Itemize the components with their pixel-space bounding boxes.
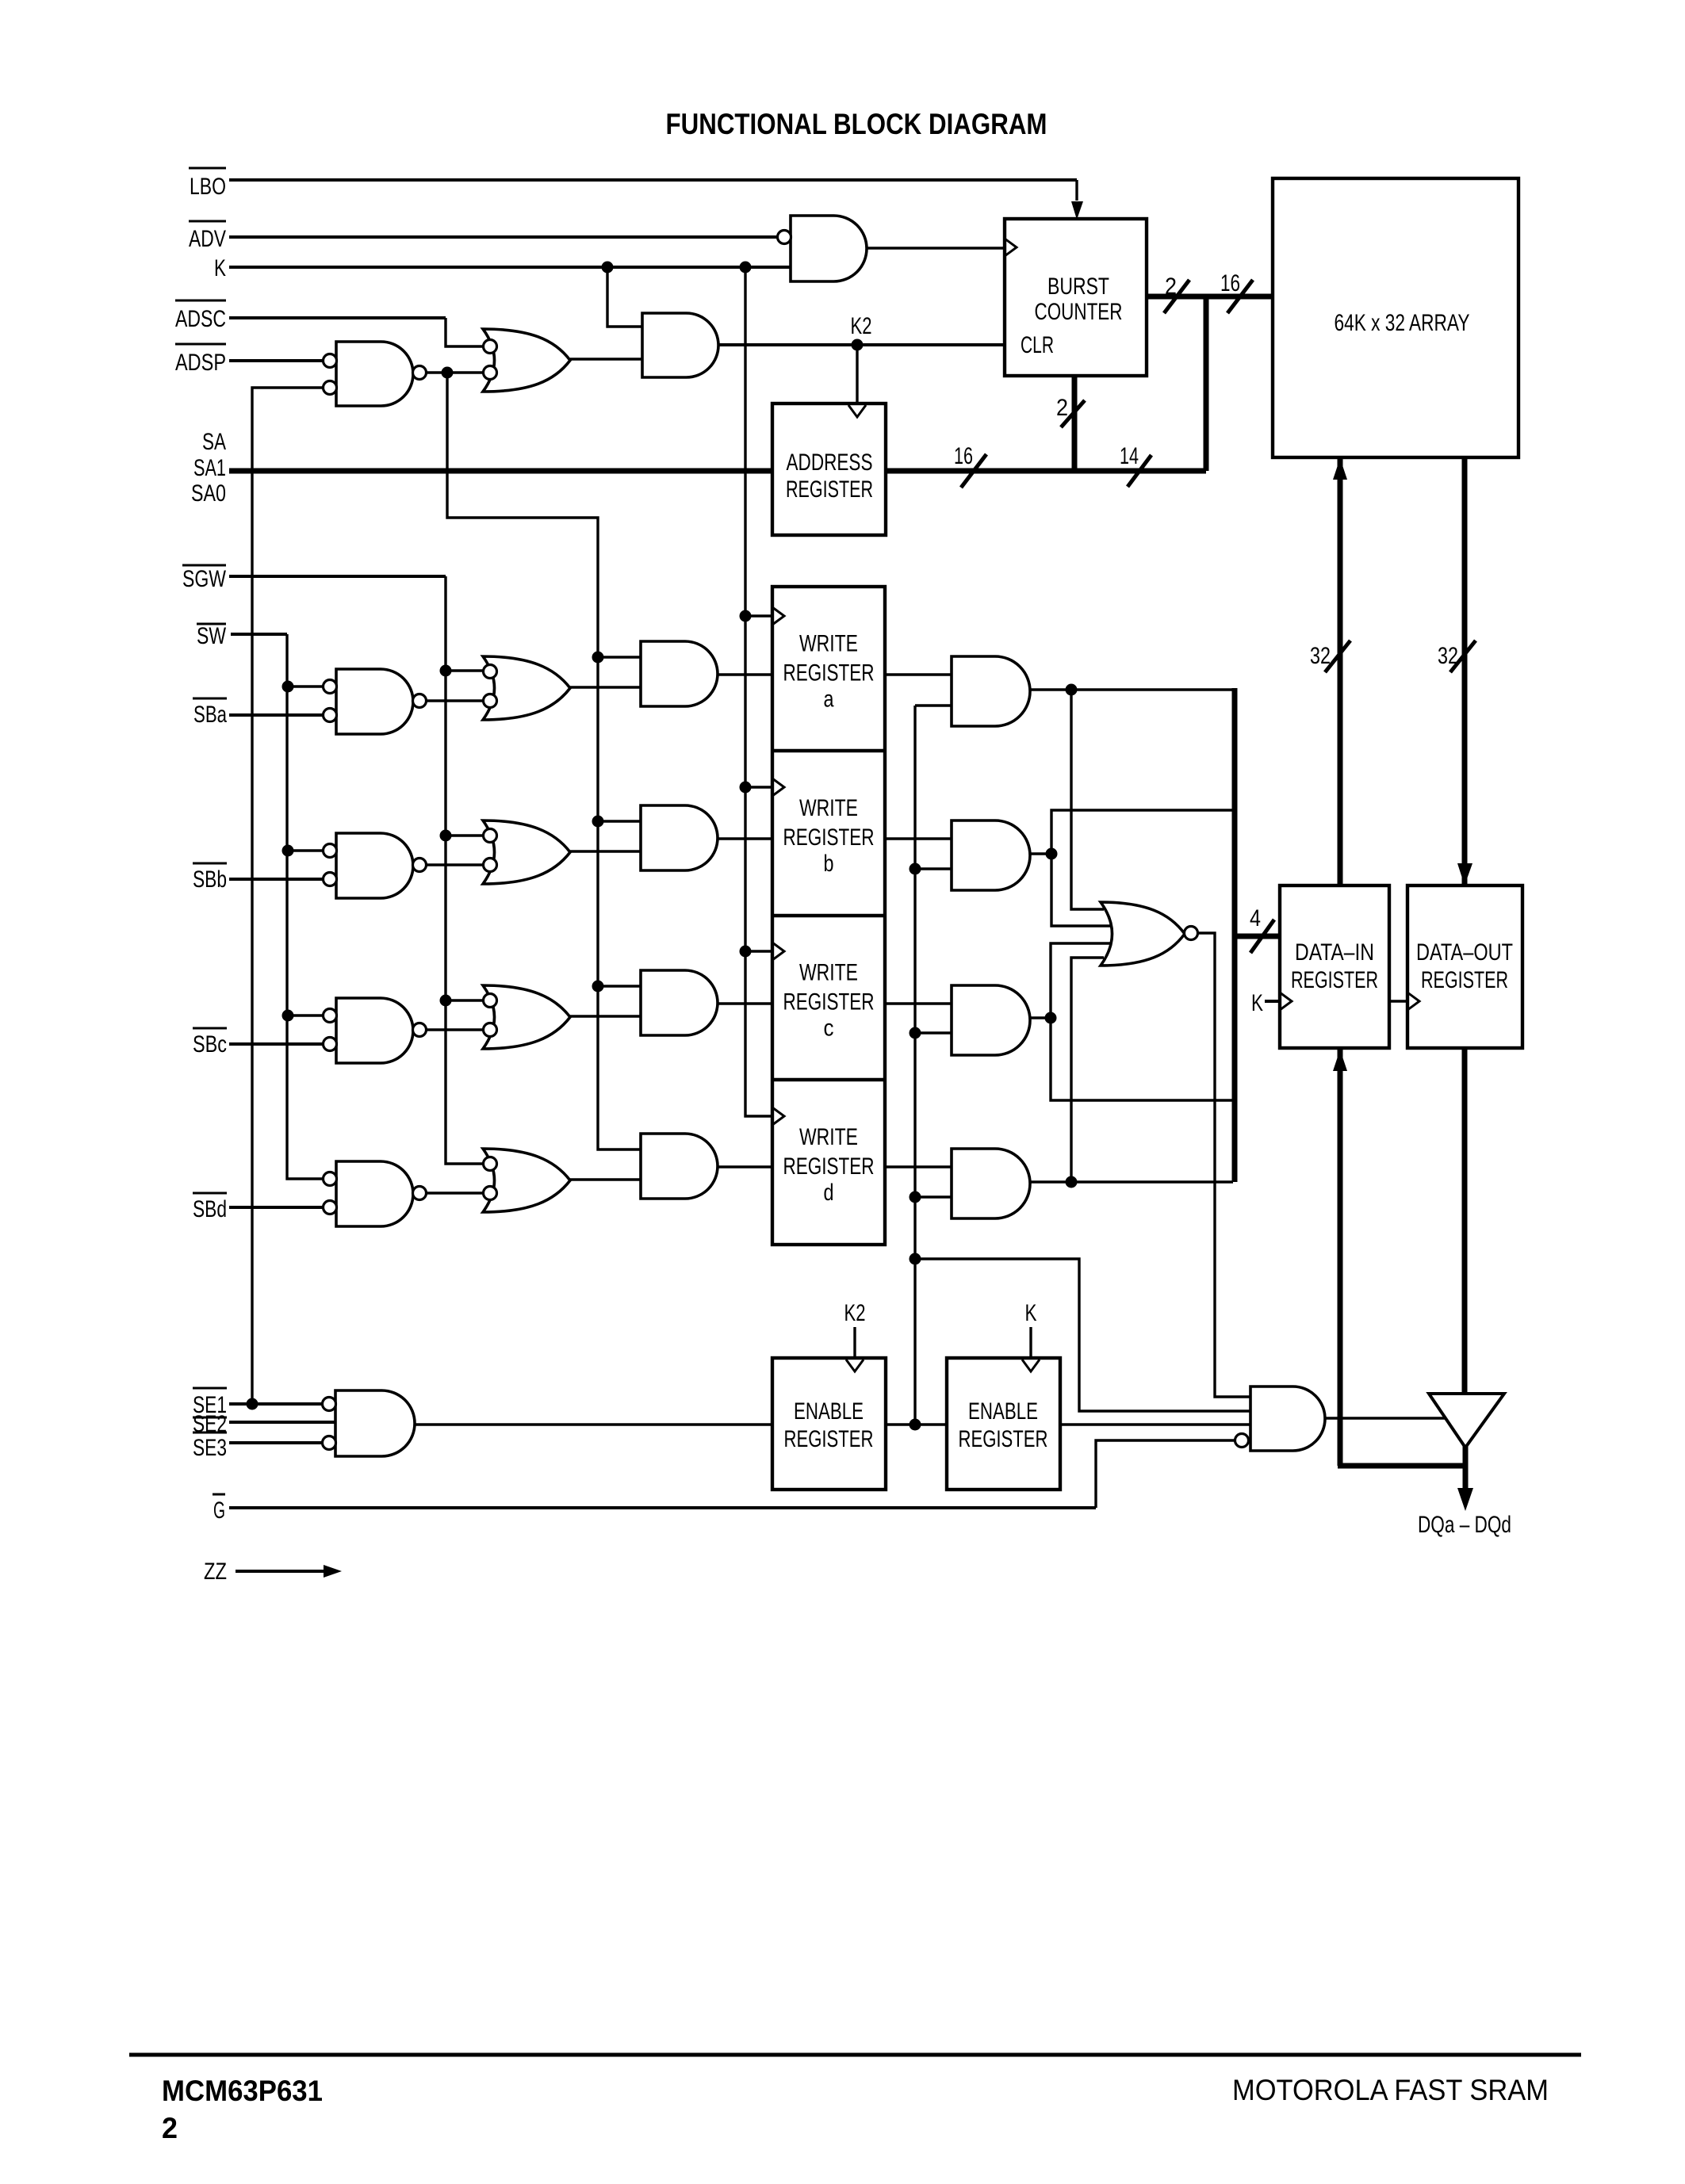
text burst counter bbox=[1035, 273, 1123, 325]
junction dot (1154,1096) bbox=[910, 863, 921, 875]
data-out register clock input bbox=[1407, 993, 1419, 1010]
wire ADV bbox=[229, 235, 778, 239]
wire U1 lower input from SE1 bbox=[252, 388, 324, 1404]
label K (data-in clock) bbox=[1251, 990, 1263, 1016]
label 16 (to array) bbox=[1220, 270, 1240, 296]
junction dot (1351,1491) bbox=[1066, 1176, 1078, 1188]
svg-text:REGISTER: REGISTER bbox=[959, 1426, 1048, 1452]
wire K2 arrow enable register 1 bbox=[853, 1327, 856, 1358]
bus DQ horizontal bbox=[1338, 1463, 1465, 1469]
data-in register clock input bbox=[1280, 993, 1292, 1010]
svg-text:WRITE: WRITE bbox=[799, 1124, 858, 1150]
wire row d NOR output to AND bbox=[570, 1178, 641, 1180]
svg-text:SA: SA bbox=[202, 429, 226, 455]
svg-text:14: 14 bbox=[1120, 443, 1139, 469]
bus 4 into data-in register bbox=[1235, 934, 1280, 939]
slash 2 (burst feedback) bbox=[1061, 400, 1085, 427]
label 16 (SA bus) bbox=[954, 443, 973, 469]
text write register a bbox=[783, 631, 875, 713]
footer part number bbox=[162, 2075, 323, 2107]
wire G to U9 bbox=[229, 1440, 1235, 1508]
wire SW tap row a bbox=[287, 685, 324, 687]
svg-text:ENABLE: ENABLE bbox=[968, 1398, 1038, 1425]
label SA0 bbox=[191, 480, 226, 507]
junction dot (562,1262) bbox=[440, 995, 452, 1007]
write register stack box bbox=[772, 587, 885, 1245]
nor U6a bbox=[483, 656, 570, 720]
wire U1 output to U2 bbox=[426, 371, 484, 373]
and U10c (data select) bbox=[952, 985, 1030, 1055]
wire SE2 bbox=[229, 1421, 335, 1424]
svg-text:REGISTER: REGISTER bbox=[783, 989, 875, 1016]
wire AND2d output to 4-bit bus bbox=[1030, 1180, 1233, 1183]
wire write pulse tap row b bbox=[598, 820, 641, 822]
text write register b bbox=[783, 795, 875, 877]
nor U6c bbox=[483, 985, 570, 1049]
label 2 (burst feedback) bbox=[1056, 395, 1068, 421]
svg-text:ADSC: ADSC bbox=[175, 306, 226, 332]
svg-text:a: a bbox=[824, 687, 834, 713]
and U9 (output enable) bbox=[1235, 1387, 1326, 1451]
wire AND2c route to NOR5 and bus bbox=[1051, 943, 1233, 1100]
arrow into array bbox=[1333, 458, 1347, 480]
nor U6b bbox=[483, 820, 570, 884]
junction dot (1154,1510) bbox=[910, 1191, 921, 1203]
svg-text:COUNTER: COUNTER bbox=[1035, 299, 1123, 325]
svg-text:64K x 32 ARRAY: 64K x 32 ARRAY bbox=[1335, 310, 1470, 336]
slash 16 (SA bus) bbox=[961, 454, 986, 488]
wire row a NAND output to NOR bbox=[426, 699, 484, 702]
svg-text:CLR: CLR bbox=[1021, 332, 1054, 358]
wire enable tap to AND2 d bbox=[915, 1195, 952, 1198]
write register divider b/c bbox=[772, 914, 885, 917]
label SE1 bbox=[193, 1388, 227, 1418]
label 2 (burst out) bbox=[1165, 273, 1177, 300]
svg-text:DQa – DQd: DQa – DQd bbox=[1418, 1512, 1511, 1538]
slash 32 (array in) bbox=[1325, 641, 1350, 672]
wire AND2a output to 4-bit bus bbox=[1030, 688, 1233, 690]
wire SW tap row c bbox=[287, 1014, 324, 1016]
label K bbox=[214, 255, 226, 281]
junction dot (1154,1797) bbox=[910, 1419, 921, 1431]
svg-text:FUNCTIONAL BLOCK DIAGRAM: FUNCTIONAL BLOCK DIAGRAM bbox=[666, 108, 1047, 140]
wire ZZ arrow bbox=[236, 1570, 325, 1573]
svg-text:MCM63P631: MCM63P631 bbox=[162, 2075, 323, 2107]
svg-text:REGISTER: REGISTER bbox=[1421, 967, 1508, 993]
junction dot (318,1771) bbox=[247, 1398, 258, 1410]
arrow into data-out register bbox=[1457, 863, 1472, 885]
svg-text:ADDRESS: ADDRESS bbox=[787, 449, 873, 476]
label SGW bbox=[182, 565, 227, 592]
label LBO bbox=[189, 168, 226, 200]
wire write register b output bbox=[885, 837, 952, 840]
wire K2 to address register bbox=[856, 345, 858, 404]
nand U5b (SW/SBb) bbox=[324, 833, 427, 898]
wire K bbox=[229, 266, 791, 269]
svg-text:16: 16 bbox=[954, 443, 973, 469]
bus data-out register to buffer bbox=[1462, 1048, 1468, 1394]
write register c clock input bbox=[772, 943, 784, 960]
svg-text:REGISTER: REGISTER bbox=[783, 1153, 875, 1180]
svg-text:SBa: SBa bbox=[193, 702, 227, 728]
svg-text:WRITE: WRITE bbox=[799, 631, 858, 657]
junction dot (754,1244) bbox=[592, 981, 604, 993]
bus data-in register to array 32 bbox=[1338, 457, 1343, 885]
wire K2 net bbox=[718, 343, 1005, 346]
svg-text:REGISTER: REGISTER bbox=[786, 476, 873, 503]
and U3 (K gate, K2 out) bbox=[642, 313, 718, 377]
svg-text:LBO: LBO bbox=[190, 174, 226, 200]
wire U8 output to enable register bbox=[415, 1423, 772, 1425]
wire SBc bbox=[229, 1042, 324, 1046]
nand U5a (SW/SBa) bbox=[324, 669, 427, 734]
arrow ZZ bbox=[324, 1565, 342, 1578]
wire row c AND output to write register c bbox=[718, 1002, 772, 1004]
address register box bbox=[772, 404, 886, 535]
bus corner to array bbox=[1204, 296, 1209, 471]
arrow into burst counter (LBO) bbox=[1071, 201, 1083, 220]
nand U8 (SE1/SE2/SE3) bbox=[323, 1390, 416, 1456]
arrow into data-in register bottom bbox=[1333, 1050, 1347, 1071]
slash 4 (to data-in) bbox=[1250, 920, 1274, 953]
footer MOTOROLA FAST SRAM bbox=[1232, 2074, 1549, 2106]
wire row a NOR output to AND bbox=[570, 686, 641, 688]
label G bbox=[213, 1494, 225, 1524]
svg-text:32: 32 bbox=[1438, 643, 1458, 669]
and U7b (write gate) bbox=[641, 805, 718, 870]
wire K clock tap reg a bbox=[745, 614, 772, 617]
and U10d (data select) bbox=[952, 1149, 1030, 1218]
text CLR bbox=[1021, 332, 1054, 358]
label 32 (array out) bbox=[1438, 643, 1458, 669]
wire row b NOR output to AND bbox=[570, 850, 641, 852]
64K x 32 array box bbox=[1273, 178, 1518, 457]
wire row d AND output to write register d bbox=[718, 1165, 772, 1168]
wire row d NAND output to NOR bbox=[426, 1191, 484, 1194]
svg-text:SGW: SGW bbox=[182, 566, 227, 592]
text address register bbox=[786, 449, 873, 503]
label K2 (enable reg 1) bbox=[844, 1300, 866, 1326]
wire U9 output to buffer enable bbox=[1325, 1417, 1446, 1419]
wire row c NAND output to NOR bbox=[426, 1028, 484, 1031]
junction dot (940,777) bbox=[740, 610, 752, 622]
wire data-in clock K stub bbox=[1265, 1000, 1280, 1003]
svg-text:DATA–OUT: DATA–OUT bbox=[1416, 939, 1513, 966]
bus buffer to DQ pad bbox=[1463, 1444, 1469, 1489]
burst counter clock input bbox=[1005, 239, 1017, 256]
wire SE1 bbox=[229, 1402, 323, 1406]
svg-text:2: 2 bbox=[1165, 273, 1177, 300]
label ZZ bbox=[204, 1559, 227, 1585]
junction dot (754,829) bbox=[592, 652, 604, 664]
junction dot (754,1036) bbox=[592, 816, 604, 828]
nor U2 (ADSC/ADSP) bbox=[483, 329, 570, 392]
svg-text:K: K bbox=[1025, 1300, 1037, 1326]
junction dot (940,337) bbox=[740, 262, 752, 273]
svg-text:ZZ: ZZ bbox=[204, 1559, 227, 1585]
wire write pulse tap row c bbox=[598, 985, 641, 987]
svg-text:ADV: ADV bbox=[189, 226, 226, 252]
wire AND2b route to 4-bit bus bbox=[1051, 810, 1232, 926]
and U7d (write gate) bbox=[641, 1134, 718, 1199]
slash 32 (array out) bbox=[1450, 641, 1476, 672]
wire K branch to AND U3 bbox=[607, 267, 642, 327]
wire row b NAND output to NOR bbox=[426, 863, 484, 866]
junction dot (562,1054) bbox=[440, 830, 452, 842]
svg-text:2: 2 bbox=[1056, 395, 1068, 421]
footer rule bbox=[129, 2053, 1581, 2057]
junction dot (363,1073) bbox=[282, 845, 294, 857]
svg-text:c: c bbox=[824, 1016, 834, 1042]
label SA1 bbox=[193, 455, 226, 481]
wire U2 output to U3 bbox=[570, 358, 642, 360]
junction dot (940,993) bbox=[740, 782, 752, 794]
label DQa - DQd bbox=[1418, 1512, 1511, 1538]
arrow into enable register 2 bbox=[1022, 1360, 1040, 1371]
wire SGW tap row c bbox=[446, 999, 484, 1001]
text enable register 2 bbox=[959, 1398, 1048, 1452]
wire K clock distribution vertical bbox=[745, 267, 772, 1116]
label 32 (array in) bbox=[1310, 643, 1331, 669]
label SBd bbox=[193, 1193, 227, 1222]
junction dot (564,470) bbox=[442, 367, 454, 379]
nor U11 (4-input) bbox=[1101, 902, 1198, 966]
arrow into enable register 1 bbox=[846, 1360, 864, 1371]
wire enable tap to AND2 c bbox=[915, 1031, 952, 1034]
svg-text:SE3: SE3 bbox=[193, 1435, 227, 1461]
junction dot (1081,435) bbox=[852, 339, 864, 351]
svg-text:32: 32 bbox=[1310, 643, 1331, 669]
svg-text:WRITE: WRITE bbox=[799, 795, 858, 821]
svg-text:SA1: SA1 bbox=[193, 455, 226, 481]
write register a clock input bbox=[772, 607, 784, 625]
wire enable tap to AND2 a bbox=[915, 704, 952, 706]
wire enable register 2 to U9 bbox=[1060, 1423, 1250, 1425]
write register divider c/d bbox=[772, 1078, 885, 1081]
slash 14 (SA bus) bbox=[1128, 455, 1151, 487]
junction dot (940,1200) bbox=[740, 946, 752, 958]
burst counter box bbox=[1005, 219, 1147, 376]
svg-text:2: 2 bbox=[162, 2112, 178, 2144]
bus 4-bit write collect bbox=[1232, 688, 1238, 1182]
text 64K x 32 ARRAY bbox=[1335, 310, 1470, 336]
wire row a AND output to write register a bbox=[718, 673, 772, 675]
wire ADSC bbox=[229, 318, 484, 346]
svg-text:REGISTER: REGISTER bbox=[783, 824, 875, 851]
label SE3 bbox=[193, 1432, 227, 1461]
wire NOR5 output to U9 bbox=[1197, 933, 1250, 1397]
label SBc bbox=[193, 1028, 227, 1058]
label K (enable reg 2) bbox=[1025, 1300, 1037, 1326]
svg-text:BURST: BURST bbox=[1047, 273, 1109, 300]
wire K arrow enable register 2 bbox=[1029, 1327, 1032, 1358]
label SBa bbox=[193, 698, 227, 728]
label ADV bbox=[189, 221, 226, 252]
svg-text:b: b bbox=[824, 851, 834, 877]
wire SBb bbox=[229, 878, 324, 881]
junction dot (766,337) bbox=[602, 262, 614, 273]
junction dot (1325,1284) bbox=[1045, 1012, 1057, 1024]
svg-text:REGISTER: REGISTER bbox=[783, 660, 875, 687]
wire enable chain to U9 bbox=[915, 1259, 1250, 1411]
tri-state output buffer bbox=[1429, 1394, 1504, 1448]
svg-text:SA0: SA0 bbox=[191, 480, 226, 507]
wire write register d output bbox=[885, 1165, 952, 1168]
footer page number bbox=[162, 2112, 178, 2144]
label SE2 bbox=[193, 1411, 227, 1437]
label K2 (top net) bbox=[851, 313, 872, 339]
label 14 (SA bus) bbox=[1120, 443, 1139, 469]
slash 2 (burst out) bbox=[1164, 280, 1189, 313]
arrow DQ output bbox=[1457, 1488, 1473, 1511]
svg-text:K2: K2 bbox=[851, 313, 872, 339]
wire write pulse distribution bbox=[447, 373, 641, 1149]
bus burst counter output 2 / 16 to array bbox=[1147, 294, 1273, 300]
and U10b (data select) bbox=[952, 820, 1030, 890]
wire SBd bbox=[229, 1206, 324, 1209]
text data-out register bbox=[1416, 939, 1513, 993]
and U7a (write gate) bbox=[641, 641, 718, 706]
wire common enable vertical bbox=[913, 706, 916, 1425]
junction dot (1154,1588) bbox=[910, 1253, 921, 1265]
wire SGW tap row b bbox=[446, 834, 484, 836]
svg-text:SW: SW bbox=[197, 623, 227, 649]
junction dot (1351,870) bbox=[1066, 684, 1078, 696]
wire U4 output to burst counter clock bbox=[867, 247, 1005, 249]
arrow into address register bbox=[848, 405, 866, 417]
svg-text:G: G bbox=[213, 1497, 225, 1524]
svg-text:REGISTER: REGISTER bbox=[784, 1426, 874, 1452]
bus burst counter feedback 2 bbox=[1072, 376, 1078, 471]
write register d clock input bbox=[772, 1107, 784, 1125]
wire data-in to data-out clock bbox=[1389, 1000, 1407, 1002]
junction dot (363,866) bbox=[282, 681, 294, 693]
wire SW tap row b bbox=[287, 849, 324, 851]
text write register d bbox=[783, 1124, 875, 1206]
slash 16 (to array) bbox=[1227, 280, 1253, 313]
nand U5d (SW/SBd) bbox=[324, 1161, 427, 1226]
label ADSP bbox=[175, 344, 226, 376]
wire K clock tap reg b bbox=[745, 786, 772, 788]
label 4 (to data-in) bbox=[1250, 905, 1261, 931]
nand U1 (ADSP gate) bbox=[324, 342, 427, 406]
wire write pulse tap row a bbox=[598, 656, 641, 658]
enable register 2 box (K) bbox=[947, 1358, 1060, 1490]
wire AND2b output bbox=[1030, 852, 1051, 855]
junction dot (1154,1303) bbox=[910, 1027, 921, 1039]
svg-text:ENABLE: ENABLE bbox=[794, 1398, 864, 1425]
label SA bbox=[202, 429, 226, 455]
wire LBO to burst counter bbox=[229, 180, 1077, 201]
write register b clock input bbox=[772, 778, 784, 796]
junction dot (562,846) bbox=[440, 665, 452, 677]
svg-text:16: 16 bbox=[1220, 270, 1240, 296]
enable register 1 box (K2) bbox=[772, 1358, 886, 1490]
wire SBa bbox=[229, 713, 324, 717]
nand U5c (SW/SBc) bbox=[324, 998, 427, 1063]
svg-text:SBd: SBd bbox=[193, 1196, 227, 1222]
wire write register c output bbox=[885, 1002, 952, 1004]
wire SGW tap row a bbox=[446, 669, 484, 671]
label SW bbox=[197, 623, 227, 649]
title bbox=[666, 108, 1047, 140]
svg-text:K: K bbox=[214, 255, 226, 281]
and U7c (write gate) bbox=[641, 970, 718, 1035]
wire AND2d output to NOR5 input 4 bbox=[1071, 958, 1104, 1182]
wire K clock tap reg c bbox=[745, 950, 772, 952]
svg-text:MOTOROLA FAST SRAM: MOTOROLA FAST SRAM bbox=[1232, 2074, 1549, 2106]
svg-text:DATA–IN: DATA–IN bbox=[1295, 939, 1374, 966]
and U4 (ADV/K) bbox=[778, 216, 867, 281]
svg-text:WRITE: WRITE bbox=[799, 960, 858, 986]
svg-text:REGISTER: REGISTER bbox=[1291, 967, 1378, 993]
wire AND2c output bbox=[1030, 1016, 1051, 1019]
svg-text:SBc: SBc bbox=[193, 1031, 227, 1058]
svg-text:ADSP: ADSP bbox=[175, 350, 226, 376]
data-out register box bbox=[1407, 885, 1522, 1048]
wire write register a output bbox=[885, 673, 952, 675]
wire AND2a output to NOR5 input 1 bbox=[1071, 690, 1104, 909]
svg-text:4: 4 bbox=[1250, 905, 1261, 931]
data-in register box bbox=[1280, 885, 1389, 1048]
wire row b AND output to write register b bbox=[718, 837, 772, 840]
wire row c NOR output to AND bbox=[570, 1015, 641, 1017]
text enable register 1 bbox=[784, 1398, 874, 1452]
label ADSC bbox=[175, 300, 226, 332]
text data-in register bbox=[1291, 939, 1378, 993]
wire SW vertical bbox=[231, 634, 324, 1179]
svg-text:K: K bbox=[1251, 990, 1263, 1016]
write register divider a/b bbox=[772, 749, 885, 752]
junction dot (1326,1077) bbox=[1046, 848, 1058, 860]
bus array to data-out register 32 bbox=[1462, 457, 1468, 885]
wire ADSP bbox=[229, 359, 324, 362]
junction dot (363,1281) bbox=[282, 1010, 294, 1022]
wire enable register 1 to 2 bbox=[886, 1423, 947, 1425]
svg-text:d: d bbox=[824, 1180, 834, 1206]
bus SA address 16 bbox=[229, 469, 1206, 474]
and U10a (data select) bbox=[952, 656, 1030, 726]
wire SGW vertical bbox=[229, 576, 484, 1164]
bus DQ to data-in register bbox=[1338, 1048, 1343, 1466]
nor U6d bbox=[483, 1149, 570, 1212]
label SBb bbox=[193, 863, 227, 893]
svg-text:SBb: SBb bbox=[193, 866, 227, 893]
wire enable tap to AND2 b bbox=[915, 867, 952, 870]
svg-text:K2: K2 bbox=[844, 1300, 866, 1326]
wire SE3 bbox=[229, 1441, 323, 1444]
text write register c bbox=[783, 960, 875, 1042]
